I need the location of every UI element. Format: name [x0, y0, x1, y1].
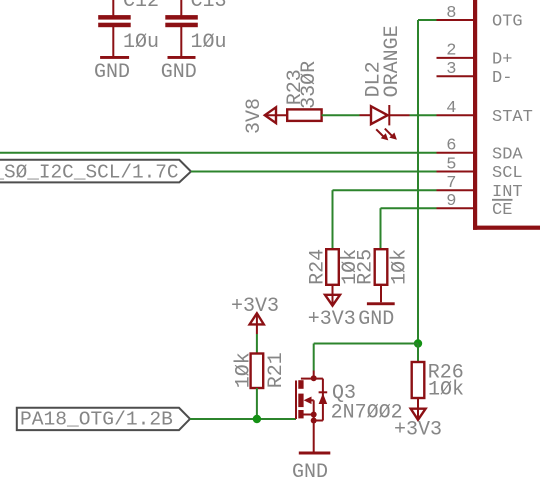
C13 value 10u: [191, 31, 227, 54]
svg-text:5: 5: [446, 155, 456, 174]
IC body: [473, 0, 540, 230]
wire junction to Q3 drain: [314, 344, 418, 371]
wire CE net: [381, 208, 437, 249]
DL2 light arrows: [376, 129, 397, 141]
R24 value 10k: [339, 249, 362, 285]
pin 9 CE: [437, 192, 513, 220]
R26 name label: [428, 361, 464, 384]
R23 name label: [284, 69, 307, 105]
wire SCL net from label tip: [191, 171, 437, 173]
svg-text:GND: GND: [161, 61, 197, 84]
pin 4 STAT: [437, 99, 533, 127]
svg-text:CE: CE: [492, 201, 512, 220]
wire PA18_OTG net: [190, 418, 296, 420]
svg-text:33ØR: 33ØR: [298, 61, 321, 109]
svg-text:SØ_I2C_SCL/1.7C: SØ_I2C_SCL/1.7C: [4, 162, 179, 184]
resistor R21: [251, 354, 264, 389]
ground under C13: [161, 56, 197, 84]
wire SDA net: [0, 152, 437, 154]
R23 value 330R: [298, 61, 321, 109]
ground under C12: [94, 56, 130, 84]
wire R21 to gate net: [256, 388, 258, 419]
junction node gate: [253, 415, 261, 423]
C12 value 10u: [123, 31, 159, 54]
svg-text:9: 9: [446, 192, 456, 211]
C13 name label: [191, 0, 227, 13]
svg-text:GND: GND: [358, 308, 394, 331]
pin 2 D+: [437, 42, 513, 70]
svg-text:C13: C13: [191, 0, 227, 13]
supply 3V8 arrow: [265, 107, 287, 123]
svg-text:1Øk: 1Øk: [233, 352, 256, 388]
svg-text:PA18_OTG/1.2B: PA18_OTG/1.2B: [20, 409, 173, 431]
svg-text:C12: C12: [123, 0, 159, 13]
resistor R24: [326, 249, 339, 285]
resistor R26: [412, 362, 425, 398]
svg-text:R21: R21: [265, 352, 288, 388]
resistor R25: [375, 249, 388, 285]
svg-text:3: 3: [446, 60, 456, 79]
svg-text:ORANGE: ORANGE: [381, 25, 404, 97]
R25 name label: [355, 249, 378, 285]
svg-text:3V8: 3V8: [243, 98, 266, 134]
svg-text:6: 6: [446, 137, 456, 156]
svg-text:2: 2: [446, 42, 456, 61]
pin 3 D-: [437, 60, 513, 88]
svg-text:1Øu: 1Øu: [191, 31, 227, 54]
net label S0_I2C_SCL/1.7C: [0, 160, 191, 184]
R24 name label: [307, 249, 330, 285]
svg-text:4: 4: [446, 99, 456, 118]
DL2 name label: [362, 61, 385, 97]
svg-text:D+: D+: [492, 51, 512, 70]
DL2 value ORANGE: [381, 25, 404, 97]
svg-text:OTG: OTG: [492, 13, 523, 32]
C12 name label: [123, 0, 159, 13]
supply +3V3 under R24: [308, 285, 356, 331]
wire junction to R26: [417, 344, 419, 363]
R26 value 10k: [428, 379, 464, 402]
R21 name label: [265, 352, 288, 388]
wire LED to pin 4: [410, 114, 437, 116]
svg-text:2N7ØØ2: 2N7ØØ2: [331, 402, 403, 425]
svg-text:D-: D-: [492, 69, 512, 88]
net label PA18_OTG/1.2B: [17, 408, 190, 431]
svg-text:1Øu: 1Øu: [123, 31, 159, 54]
pin 7 INT: [437, 174, 523, 202]
LED DL2: [360, 105, 410, 125]
transistor Q3: [296, 371, 327, 452]
svg-text:R24: R24: [307, 249, 330, 285]
svg-text:GND: GND: [292, 461, 328, 484]
3V8 net label: [243, 98, 266, 134]
capacitor C13: [165, 0, 198, 56]
svg-text:SCL: SCL: [492, 164, 523, 183]
Q3 value 2N7002: [331, 402, 403, 425]
resistor R23: [287, 109, 321, 121]
pin 5 SCL: [437, 155, 523, 183]
wire OTG net vertical: [418, 20, 437, 344]
capacitor C12: [98, 0, 131, 56]
svg-text:+3V3: +3V3: [308, 308, 356, 331]
ground under Q3: [292, 452, 330, 484]
svg-text:STAT: STAT: [492, 108, 533, 127]
R25 value 10k: [389, 249, 412, 285]
supply +3V3 under R26: [394, 398, 442, 441]
pin 8 OTG: [437, 4, 523, 32]
wire R23 to LED: [322, 114, 360, 116]
pin 6 SDA: [437, 137, 524, 165]
ground under R25: [358, 285, 394, 331]
supply +3V3 above R21: [231, 295, 279, 334]
svg-text:7: 7: [446, 174, 456, 193]
Q3 name label: [332, 382, 356, 405]
wire INT net: [333, 190, 437, 249]
R21 value 10k: [233, 352, 256, 388]
svg-text:8: 8: [446, 4, 456, 23]
svg-text:GND: GND: [94, 61, 130, 84]
svg-text:1Øk: 1Øk: [389, 249, 412, 285]
svg-text:R25: R25: [355, 249, 378, 285]
junction node OTG: [414, 339, 422, 347]
wire +3V3 to R21: [256, 334, 258, 354]
svg-text:1Øk: 1Øk: [428, 379, 464, 402]
svg-text:SDA: SDA: [492, 145, 523, 164]
